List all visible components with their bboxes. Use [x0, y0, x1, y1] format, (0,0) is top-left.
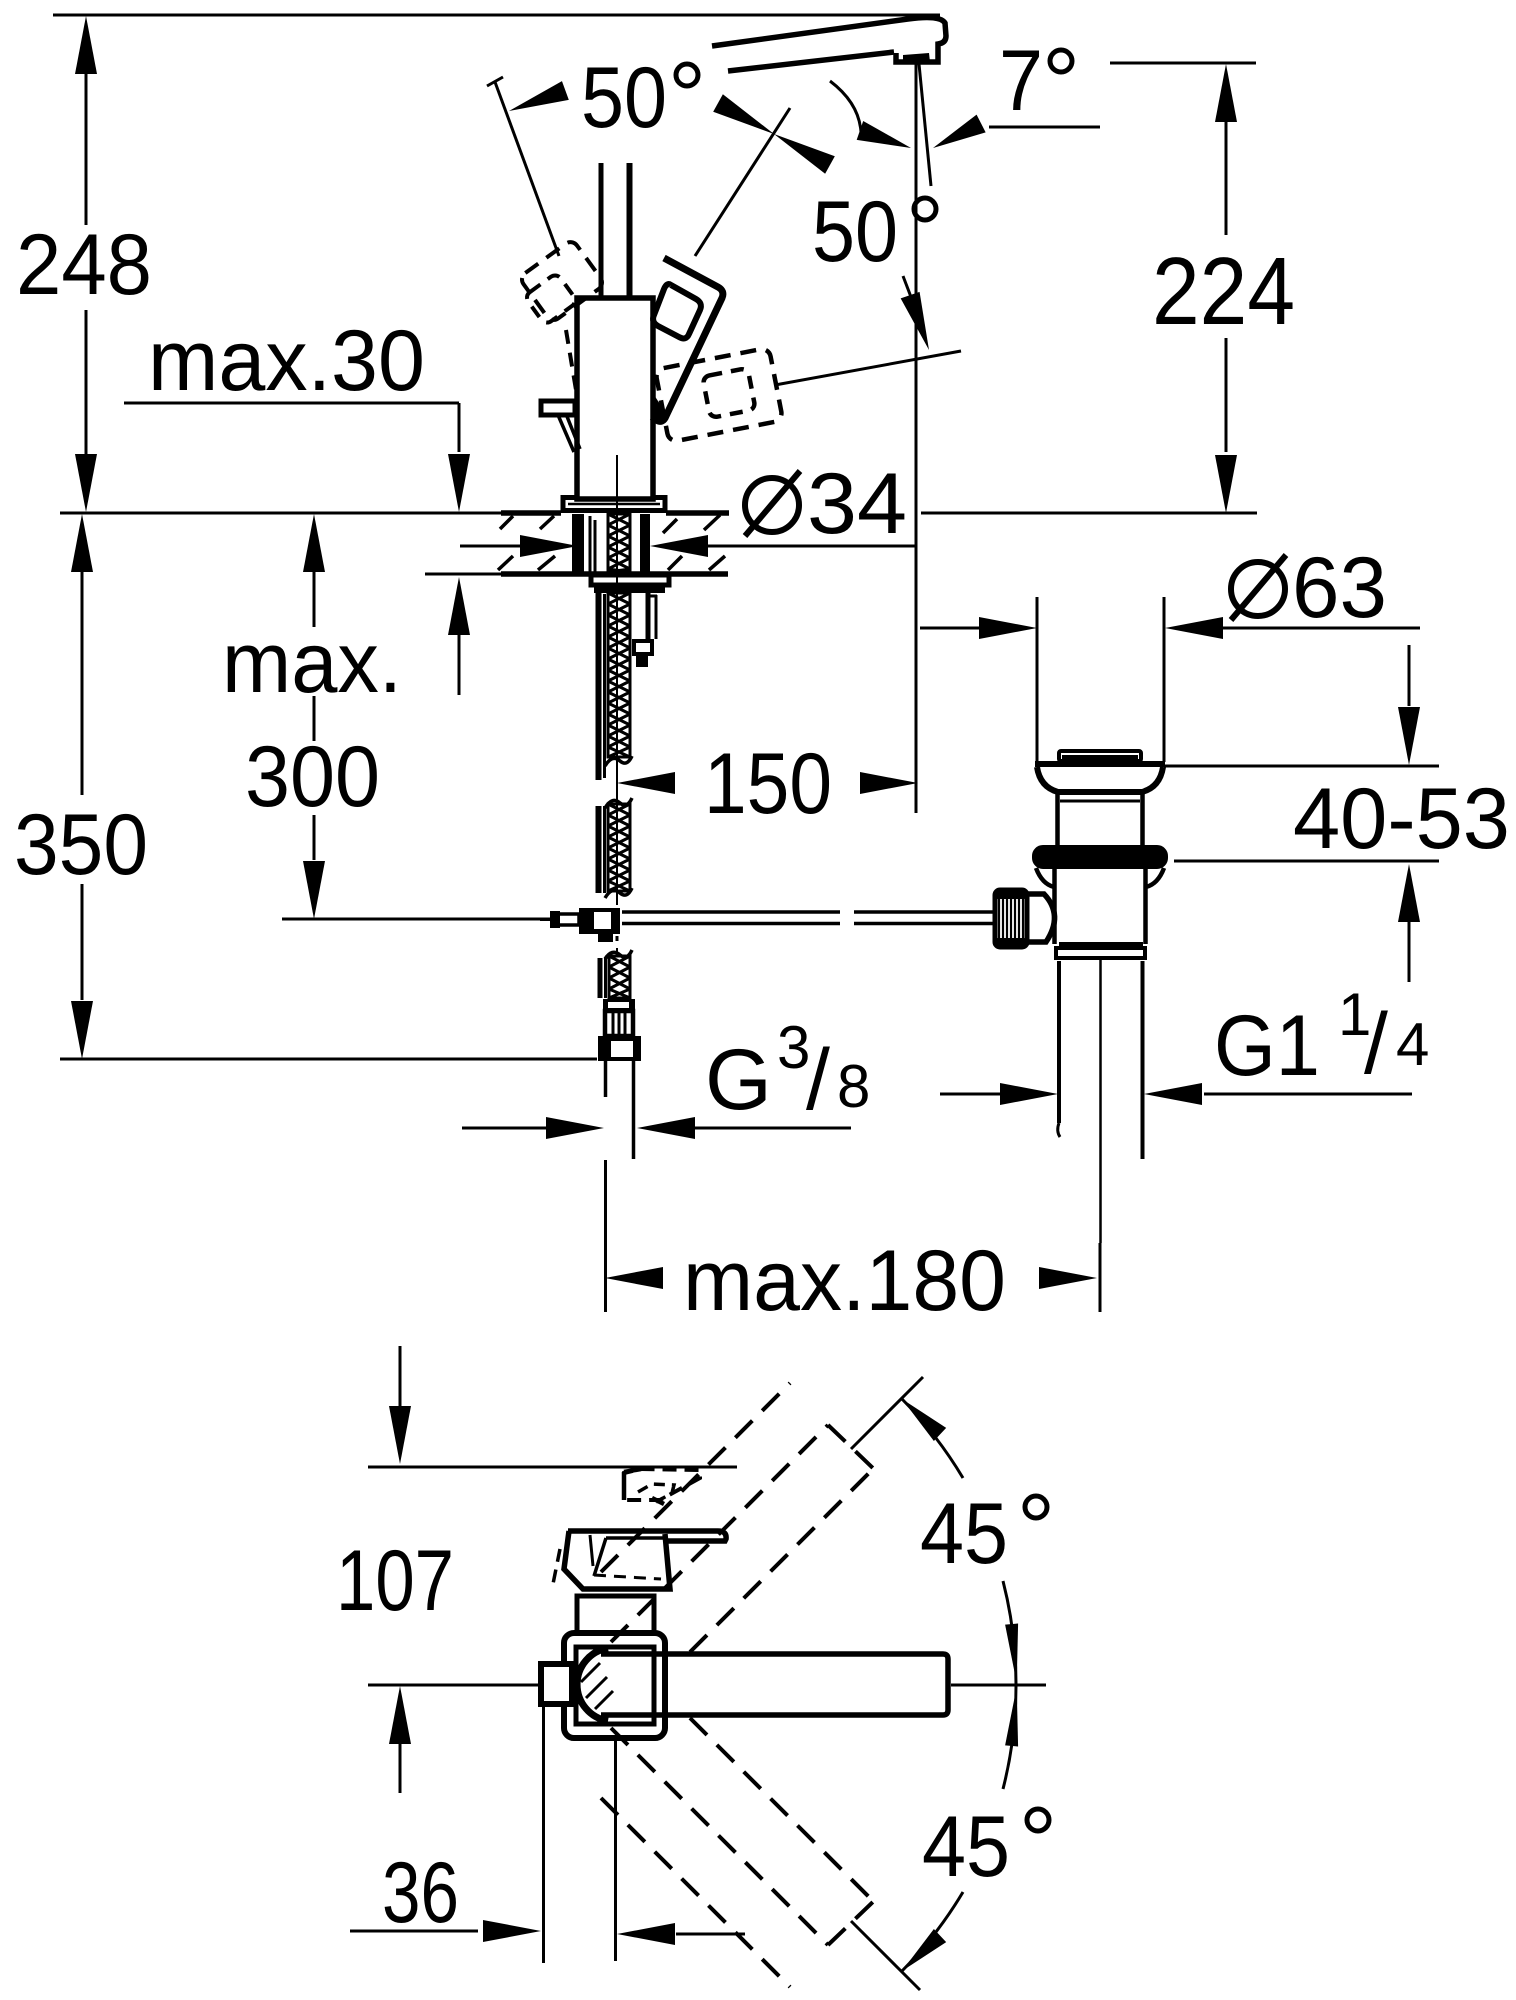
top view: spout rectangle [601, 1654, 948, 1715]
dashed lever square upper-left [519, 239, 605, 323]
top view: head trapezoid [564, 1531, 670, 1589]
top view: escutcheon rounded rect [564, 1633, 665, 1738]
max.180 dimension [1099, 1243, 1102, 1312]
upper dashed lever line L2 [601, 1383, 790, 1572]
pop-up rod knurled knob [995, 890, 1027, 947]
locknut washer [591, 575, 669, 585]
svg-text:max.180: max.180 [683, 1233, 1006, 1329]
dimension 63 text [1231, 562, 1285, 616]
threaded rod with cross-hatch upper [608, 514, 630, 572]
svg-text:300: 300 [245, 729, 380, 825]
arrowhead on ray A [509, 81, 569, 111]
top view: dashed 3d box above head [624, 1469, 700, 1500]
pop-up plug rim [1035, 761, 1165, 767]
valve neck upper [1059, 789, 1141, 792]
shank inner thin lines [589, 516, 592, 572]
locknut lip [594, 587, 665, 593]
pop-up horizontal rod [622, 910, 840, 914]
hose ridged section [605, 1011, 633, 1036]
top view: lever handle bar [568, 1531, 726, 1541]
dashed strokes from left square to tab [566, 330, 577, 396]
pop-up plug cap [1059, 751, 1141, 761]
lower dashed lever line L2 [601, 1798, 790, 1987]
joystick lever vertical lines [599, 163, 604, 296]
svg-text:150: 150 [704, 736, 832, 832]
supply hose upper left wall [596, 593, 602, 780]
lever tilted open (solid) outline [652, 258, 723, 421]
dashed open lever rect (right) [655, 348, 783, 443]
svg-text:107: 107 [336, 1533, 454, 1629]
107 dimension upper part [399, 1346, 402, 1406]
G1 1/4 arrows [940, 1093, 1010, 1096]
svg-text:max.30: max.30 [148, 313, 425, 409]
lower lever centerline solid [851, 1921, 920, 1990]
upper 45 arc with arrows [902, 1399, 963, 1478]
hose end collar [603, 999, 635, 1011]
knob arm to valve body [1027, 894, 1055, 942]
clamp left stub [553, 914, 579, 925]
top view: main body rect [576, 1647, 654, 1724]
faucet base plate [563, 498, 665, 511]
svg-text:248: 248 [16, 217, 152, 313]
max300 dimension [303, 514, 325, 572]
upper dashed lever line L1 [690, 1468, 874, 1652]
arrowhead of 50 deg arc [857, 121, 911, 148]
svg-text:7: 7 [999, 33, 1043, 129]
faucet centerline [616, 455, 618, 905]
150 dimension arrows and text [617, 772, 675, 794]
36 dimension arrows [350, 1930, 478, 1933]
top view: upper body rect [577, 1596, 654, 1644]
faucet body [577, 298, 653, 499]
dimension 224 top reference line [1110, 62, 1256, 65]
drain tailpipe [1057, 961, 1061, 1123]
dimension 248 vertical line with arrows [75, 16, 97, 74]
svg-text:40-53: 40-53 [1293, 771, 1510, 867]
angle ray A (left 50 deg) [495, 82, 559, 256]
107 bottom reference line [368, 1684, 541, 1687]
countertop top surface line [60, 512, 501, 515]
7 deg arrows [933, 115, 986, 148]
svg-text:45: 45 [920, 1486, 1008, 1582]
top view: ball semicircle [577, 1648, 608, 1721]
lower dashed lever end cap [828, 1899, 876, 1945]
countertop bottom surface line [425, 573, 501, 576]
350 dimension [71, 514, 93, 572]
drain valve extension lines for 63 [1036, 597, 1039, 764]
lower 45 arc with arrows [902, 1892, 963, 1971]
pop-up rod clamp block [579, 908, 620, 934]
supply tube [604, 1061, 608, 1097]
top view: centerline right of spout [951, 1684, 1046, 1687]
svg-text:G: G [705, 1032, 772, 1128]
clamp lower nub [598, 933, 613, 942]
faucet shank right wall [640, 514, 650, 574]
spout bottom edge [728, 52, 894, 71]
top reference line (spout top level) [53, 14, 940, 17]
valve tailpiece rings [1059, 942, 1143, 947]
top view: dashed bit left of head [553, 1549, 560, 1584]
50 deg arc near spout [830, 81, 861, 132]
107 lower arrow [389, 1686, 411, 1744]
water stream vertical line [915, 64, 918, 813]
svg-text:/: / [806, 1032, 830, 1128]
dimension 224 line with arrows [1215, 64, 1237, 122]
hose break wavy upper [605, 756, 632, 766]
max.30 lower arrow (counter underside) [448, 577, 470, 635]
top view: lever paddle tab (left) [541, 1664, 572, 1704]
G 3/8 arrows [462, 1127, 567, 1130]
angle ray B (right 50 deg) [695, 108, 790, 256]
svg-text:/: / [1364, 996, 1388, 1092]
350 bottom reference line [60, 1058, 597, 1061]
aerator dark insert [903, 53, 930, 63]
supply hose lower segment [598, 958, 603, 998]
rubber seal ring [1033, 846, 1167, 868]
top view: solid bits of 3d box [622, 1472, 627, 1500]
bowtie arrows on ray B [713, 94, 774, 134]
hose segment middle [596, 806, 602, 893]
svg-text:36: 36 [382, 1845, 459, 1941]
dimension 224 bottom reference line [921, 512, 1257, 515]
7 deg reference line [989, 126, 1100, 129]
svg-text:G1: G1 [1214, 998, 1320, 1094]
svg-text:224: 224 [1152, 238, 1295, 345]
upper dashed lever mid line [611, 1425, 828, 1642]
dimension 34 arrows [460, 545, 522, 548]
svg-text:63: 63 [1292, 540, 1387, 636]
dimension 63 arrows [920, 627, 988, 630]
svg-text:34: 34 [807, 456, 907, 552]
lever paddle tab (closed position, left) [541, 401, 575, 415]
threaded rod cross-hatch below nut [608, 593, 630, 757]
36 dimension extension lines [542, 1706, 545, 1963]
svg-text:50: 50 [812, 184, 898, 280]
countertop hatching [500, 516, 513, 529]
lever knob face (rounded square) [653, 284, 701, 338]
lever tip wedge at body corner [652, 392, 668, 424]
faucet shank left wall [572, 514, 584, 574]
top view: head inner lines [606, 1536, 666, 1540]
svg-text:8: 8 [837, 1053, 870, 1120]
lever blade lines below tab [558, 415, 574, 452]
lower dashed lever mid line [611, 1728, 828, 1945]
spout top edge and right end [712, 17, 946, 62]
dashed open lever inner square [702, 368, 755, 418]
dimension 40-53 [1408, 645, 1411, 706]
svg-text:45: 45 [922, 1799, 1010, 1895]
svg-text:350: 350 [14, 797, 148, 893]
lower dashed lever line L1 [690, 1718, 874, 1902]
svg-text:max.: max. [222, 615, 402, 711]
arrowhead on ray D [901, 292, 929, 350]
hose connection nut [598, 1036, 641, 1061]
pop-up rod guide bracket [646, 593, 651, 641]
svg-text:50: 50 [581, 50, 667, 146]
top view: ball hatch [581, 1663, 600, 1682]
valve body below seal [1052, 868, 1057, 944]
drain centerline [1099, 960, 1102, 1243]
max300 bottom reference line [282, 918, 555, 921]
dimension 34 text [745, 478, 799, 532]
ray D dashed-lever centerline [775, 351, 961, 385]
107 top reference line [368, 1466, 737, 1469]
upper lever centerline solid [851, 1377, 923, 1449]
svg-text:4: 4 [1396, 1011, 1429, 1078]
upper dashed lever end cap [828, 1425, 876, 1471]
dashed lever square inner-left [524, 273, 578, 326]
water stream 7 deg line [919, 64, 931, 186]
